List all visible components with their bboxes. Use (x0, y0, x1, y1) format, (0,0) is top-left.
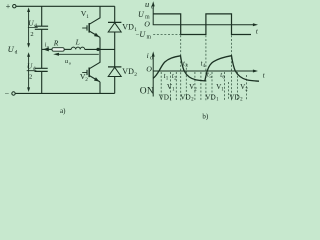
svg-text:VD: VD (180, 93, 190, 101)
svg-text:2: 2 (30, 31, 33, 38)
svg-text:VD: VD (122, 23, 134, 32)
svg-text:o: o (150, 56, 153, 62)
svg-text:L: L (75, 38, 80, 47)
svg-text:1: 1 (86, 14, 89, 20)
svg-text:U: U (8, 44, 15, 54)
svg-text:o: o (151, 5, 154, 11)
svg-text:VD: VD (122, 67, 134, 76)
svg-text:2: 2 (85, 77, 88, 83)
svg-text:VD: VD (229, 93, 239, 101)
svg-text:VD: VD (159, 93, 169, 101)
svg-text:U: U (28, 19, 34, 28)
svg-text:−: − (5, 89, 10, 98)
svg-text:R: R (53, 38, 59, 47)
svg-text:a): a) (60, 107, 66, 115)
svg-text:VD: VD (205, 93, 215, 101)
svg-text:i: i (147, 51, 149, 60)
svg-text:O: O (144, 19, 150, 28)
svg-text:u: u (145, 0, 149, 9)
svg-text:d: d (15, 50, 18, 56)
svg-text:O: O (146, 65, 152, 74)
svg-text:ON: ON (140, 87, 154, 97)
svg-text:U: U (27, 62, 33, 71)
svg-text:+: + (6, 1, 11, 11)
svg-text:2: 2 (134, 72, 137, 78)
svg-text:m: m (147, 35, 152, 41)
svg-text:b): b) (202, 112, 209, 120)
svg-text:2: 2 (29, 73, 32, 80)
